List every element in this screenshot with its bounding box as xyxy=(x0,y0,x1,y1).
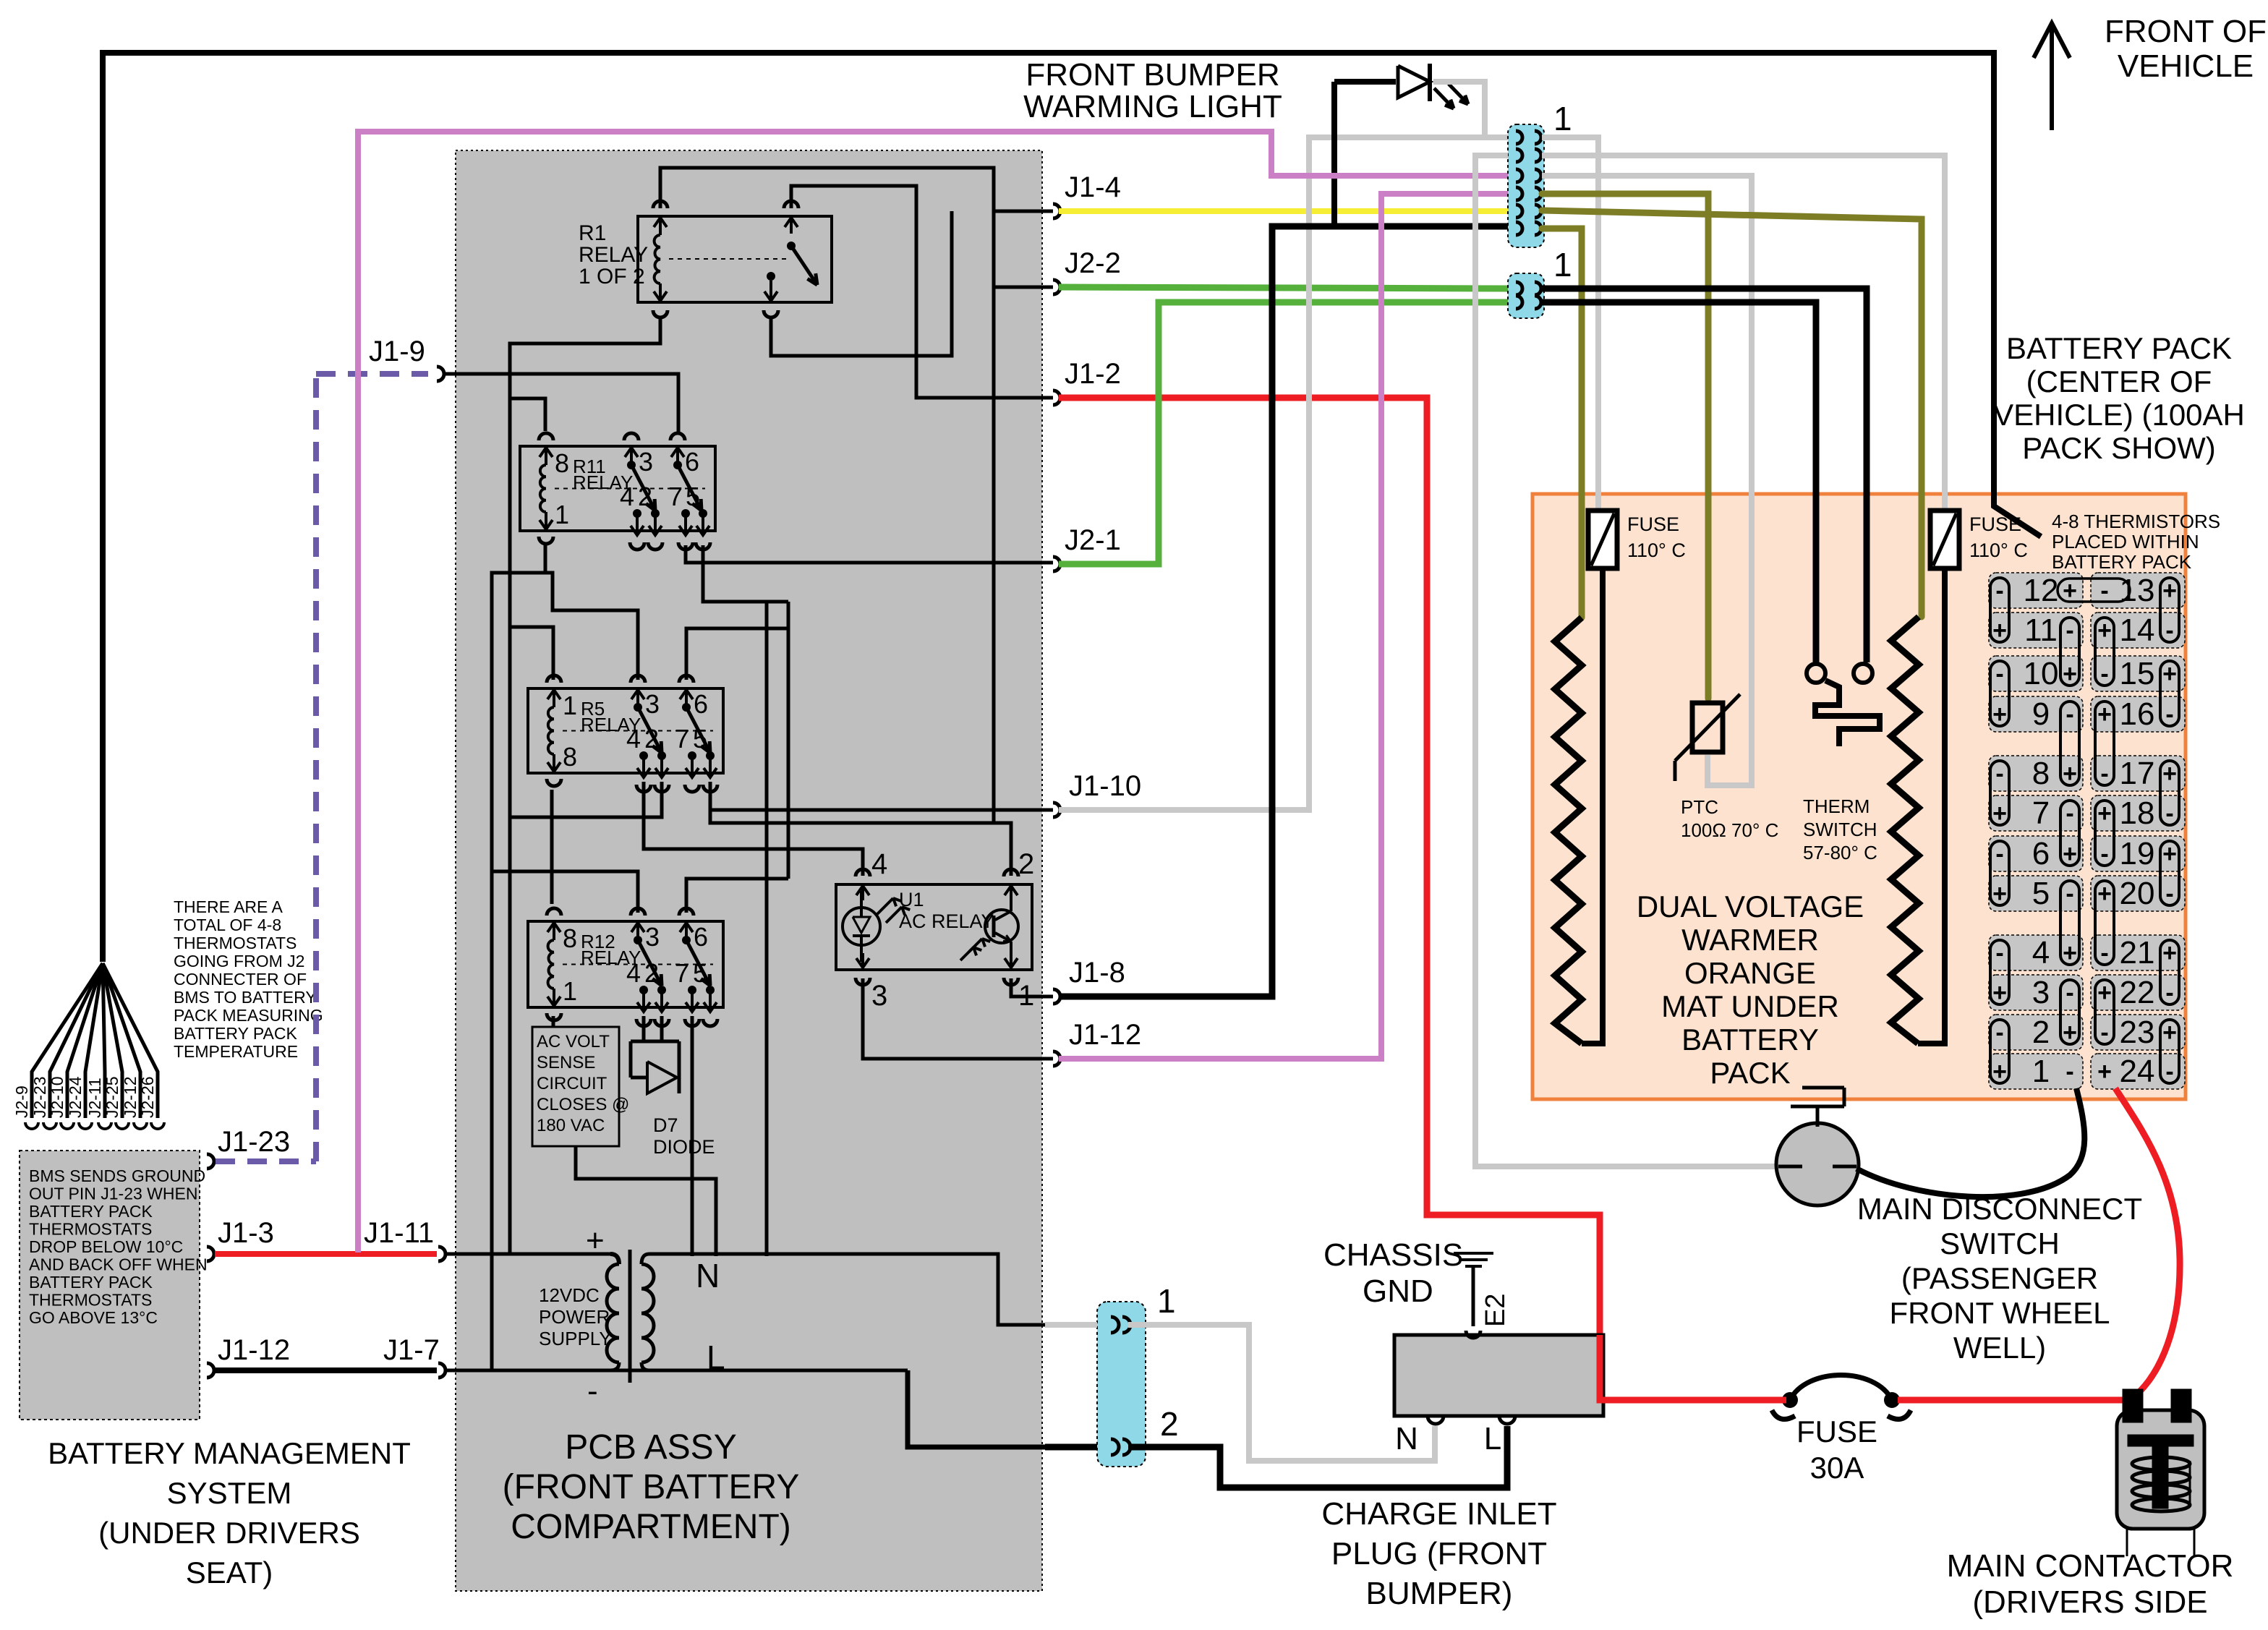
wire R1 coil bottom long left riser xyxy=(510,317,660,1254)
svg-text:BATTERY: BATTERY xyxy=(1681,1023,1819,1057)
svg-text:57-80° C: 57-80° C xyxy=(1803,842,1877,863)
svg-text:THERMOSTATS: THERMOSTATS xyxy=(174,934,297,952)
svg-text:J1-4: J1-4 xyxy=(1065,171,1121,203)
svg-text:16: 16 xyxy=(2120,696,2155,732)
svg-text:J2-12: J2-12 xyxy=(121,1076,140,1118)
battery cell 8 xyxy=(1989,756,2083,791)
svg-text:3: 3 xyxy=(871,980,887,1012)
svg-text:PTC: PTC xyxy=(1681,796,1718,818)
wire left fuse to heater bottom xyxy=(1582,568,1603,1044)
svg-text:ORANGE: ORANGE xyxy=(1684,956,1816,990)
wire disconnect switch to conn1 pin2 (gray) xyxy=(1475,155,1779,1166)
svg-text:24: 24 xyxy=(2120,1054,2155,1089)
svg-text:J2-10: J2-10 xyxy=(48,1076,67,1118)
battery cell 12 xyxy=(1989,573,2083,608)
svg-text:J1-3: J1-3 xyxy=(218,1217,274,1249)
wire AC VOLT box to N line xyxy=(576,1146,716,1256)
svg-text:N: N xyxy=(696,1257,720,1294)
svg-text:6: 6 xyxy=(694,689,708,719)
wire conn1 pin5 to right heater (olive) xyxy=(1542,210,1922,617)
svg-text:+: + xyxy=(2162,577,2177,605)
wire fuse to contactor (red) xyxy=(1898,1397,2127,1404)
battery cell 5 xyxy=(1989,876,2083,911)
relay R11 coil xyxy=(540,465,546,512)
wire conn3 pin1 to charge inlet N (gray) xyxy=(1128,1325,1435,1461)
wire J2-1 to R11 pin7 xyxy=(686,545,1053,563)
svg-text:2: 2 xyxy=(1018,848,1034,880)
svg-text:15: 15 xyxy=(2120,656,2155,691)
svg-text:1: 1 xyxy=(1018,980,1034,1012)
svg-text:J2-24: J2-24 xyxy=(66,1076,85,1118)
svg-text:THERMOSTATS: THERMOSTATS xyxy=(29,1220,152,1239)
svg-text:7: 7 xyxy=(668,482,683,511)
svg-text:6: 6 xyxy=(685,447,699,477)
pin J1-8 stub xyxy=(1053,989,1060,1004)
svg-text:FRONT WHEEL: FRONT WHEEL xyxy=(1890,1296,2110,1330)
svg-text:5: 5 xyxy=(2032,876,2050,911)
LED warming light xyxy=(1398,66,1430,98)
chassis ground symbol xyxy=(1454,1252,1493,1255)
wire R5 coil8 to R12 coil8 xyxy=(550,790,554,904)
svg-text:2: 2 xyxy=(638,482,652,511)
battery straps left outer xyxy=(1990,578,2009,642)
svg-text:180 VAC: 180 VAC xyxy=(537,1116,605,1135)
svg-text:FRONT BUMPER: FRONT BUMPER xyxy=(1026,57,1279,93)
wire battery cell1 to disconnect (black curve) xyxy=(1856,1088,2084,1197)
svg-text:(CENTER OF: (CENTER OF xyxy=(2026,364,2212,398)
relay R5 dashed link xyxy=(563,730,713,732)
svg-text:PCB ASSY: PCB ASSY xyxy=(565,1428,736,1467)
transformer primary xyxy=(610,1254,619,1264)
pin J1-9 stub xyxy=(437,367,444,381)
svg-text:5: 5 xyxy=(686,482,700,511)
svg-text:(PASSENGER: (PASSENGER xyxy=(1901,1261,2098,1295)
wire J2-2 (green) xyxy=(1059,287,1508,289)
svg-text:MAT UNDER: MAT UNDER xyxy=(1661,989,1839,1023)
svg-text:3: 3 xyxy=(2032,975,2050,1010)
wire J1-10 riser xyxy=(710,602,1053,879)
svg-text:BATTERY PACK: BATTERY PACK xyxy=(29,1202,153,1221)
svg-text:L: L xyxy=(1484,1421,1501,1456)
svg-text:1: 1 xyxy=(1553,246,1572,283)
svg-text:SYSTEM: SYSTEM xyxy=(167,1476,292,1510)
wire conn1 pin6 to left heater (olive) xyxy=(1542,229,1582,618)
wire R12 pins to D7 rail xyxy=(631,1016,679,1078)
op-amp U1 AC RELAY box xyxy=(836,884,1032,970)
therm switch xyxy=(1807,664,1825,683)
battery cell 1 xyxy=(1989,1054,2083,1089)
svg-text:J2-9: J2-9 xyxy=(12,1085,31,1118)
svg-text:J1-9: J1-9 xyxy=(369,336,425,367)
svg-text:J2-1: J2-1 xyxy=(1065,524,1121,556)
svg-text:+: + xyxy=(2097,617,2112,644)
svg-text:TEMPERATURE: TEMPERATURE xyxy=(174,1042,298,1061)
battery straps right inner xyxy=(2095,618,2114,686)
svg-text:SEAT): SEAT) xyxy=(186,1556,273,1590)
battery strap 12-13 horizontal xyxy=(2058,579,2130,602)
connector 1 (8-pin) xyxy=(1508,124,1544,247)
svg-text:1: 1 xyxy=(2032,1054,2050,1089)
wire R11 coil1 down-left riser to J1-7 line xyxy=(492,545,545,1370)
wire front bumper warming light (pink) xyxy=(358,132,1508,1253)
pin J1-11 stub xyxy=(438,1247,445,1261)
wire conn1 pin3 to PTC bottom (gray) xyxy=(1542,176,1752,785)
svg-text:R1: R1 xyxy=(579,221,606,245)
svg-text:CHASSIS: CHASSIS xyxy=(1323,1237,1463,1273)
svg-text:-: - xyxy=(2065,617,2073,644)
svg-text:10: 10 xyxy=(2024,656,2059,691)
svg-text:J1-11: J1-11 xyxy=(364,1217,434,1249)
svg-text:SWITCH: SWITCH xyxy=(1803,819,1877,840)
svg-text:TOTAL OF 4-8: TOTAL OF 4-8 xyxy=(174,916,281,934)
battery cell 16 xyxy=(2091,696,2185,732)
svg-text:5: 5 xyxy=(693,958,707,988)
svg-text:J1-12: J1-12 xyxy=(1069,1019,1141,1051)
wire R5 pin2 left riser to J1-11 line xyxy=(510,782,662,817)
svg-text:CHARGE INLET: CHARGE INLET xyxy=(1321,1496,1556,1532)
svg-text:SENSE: SENSE xyxy=(537,1053,595,1072)
svg-text:GO ABOVE 13°C: GO ABOVE 13°C xyxy=(29,1308,158,1327)
transformer secondary xyxy=(641,1254,649,1264)
battery cell 15 xyxy=(2091,656,2185,691)
svg-text:3: 3 xyxy=(645,922,660,952)
U1 phototransistor xyxy=(985,910,1018,943)
svg-text:POWER: POWER xyxy=(539,1306,610,1328)
svg-text:+: + xyxy=(2097,979,2112,1007)
svg-text:VEHICLE: VEHICLE xyxy=(2118,48,2254,84)
heater element right (zigzag) xyxy=(1891,617,1919,1044)
svg-text:N: N xyxy=(1395,1421,1418,1456)
BMS box (battery management system) xyxy=(20,1151,200,1420)
fuse left 110C xyxy=(1588,511,1617,568)
PCB ASSY box xyxy=(456,150,1042,1591)
battery cell 24 xyxy=(2091,1054,2185,1089)
wire conn3 pin1 left (gray) xyxy=(1045,1322,1097,1328)
svg-text:PACK: PACK xyxy=(1710,1056,1790,1090)
battery cell 4 xyxy=(1989,935,2083,970)
svg-text:PACK SHOW): PACK SHOW) xyxy=(2022,431,2216,465)
svg-text:2: 2 xyxy=(2032,1015,2050,1050)
wire J1-2 (red) to fuse 30A xyxy=(1059,398,1785,1400)
svg-text:-: - xyxy=(2065,880,2073,908)
svg-text:J1-7: J1-7 xyxy=(383,1334,440,1366)
svg-text:14: 14 xyxy=(2120,613,2155,648)
svg-text:6: 6 xyxy=(2032,836,2050,871)
wire U1 pin1 to J1-8 pin xyxy=(1011,978,1053,997)
relay R12 pole pins 3 6 xyxy=(636,923,639,940)
wire J1-12 to J1-7 (black) xyxy=(215,1367,437,1373)
svg-text:J1-23: J1-23 xyxy=(218,1126,290,1158)
svg-text:1: 1 xyxy=(563,691,577,720)
svg-text:MAIN CONTACTOR: MAIN CONTACTOR xyxy=(1947,1548,2234,1584)
wire conn1 pin4 to PTC top (olive) xyxy=(1542,194,1708,699)
svg-text:4: 4 xyxy=(871,848,887,880)
battery cell 14 xyxy=(2091,613,2185,648)
svg-text:J2-26: J2-26 xyxy=(138,1076,157,1118)
svg-text:8: 8 xyxy=(563,923,577,953)
svg-text:19: 19 xyxy=(2120,836,2155,871)
wire riser to R5 coil 1 xyxy=(510,627,553,680)
svg-text:4: 4 xyxy=(620,482,634,511)
svg-text:(DRIVERS SIDE: (DRIVERS SIDE xyxy=(1972,1584,2207,1620)
svg-text:8: 8 xyxy=(555,448,569,478)
battery straps right outer xyxy=(2160,578,2179,642)
svg-text:-: - xyxy=(2065,800,2073,827)
wire riser to R11 coil 8 xyxy=(510,398,545,431)
wire conn1 pin2 to right fuse (gray) xyxy=(1542,155,1945,511)
relay R5 coil xyxy=(548,707,554,754)
wire R12 pin3 to left riser xyxy=(492,871,638,913)
wire R12 pin6 to riser xyxy=(686,879,788,913)
svg-text:2: 2 xyxy=(1160,1405,1179,1443)
connector 2 (2-pin) xyxy=(1508,273,1544,318)
svg-text:3: 3 xyxy=(645,689,660,719)
wire U1 pin3 to J1-12 pin xyxy=(863,978,1053,1059)
svg-text:100Ω 70° C: 100Ω 70° C xyxy=(1681,819,1778,841)
svg-text:J2-25: J2-25 xyxy=(103,1076,121,1118)
wire R1 coil top to J1-4 xyxy=(660,168,1053,287)
wire R5 pin6 up to riser xyxy=(686,628,788,680)
svg-text:VEHICLE) (100AH: VEHICLE) (100AH xyxy=(1993,398,2245,432)
wire R1 pole to J1-2 xyxy=(791,186,1053,398)
battery cell 13 xyxy=(2091,573,2185,608)
battery cell 10 xyxy=(1989,656,2083,691)
svg-text:+: + xyxy=(2162,939,2177,967)
charge inlet L pin xyxy=(1499,1416,1515,1424)
wire R11 coil1 to R5 pin3 xyxy=(545,573,638,680)
orange mat box xyxy=(1532,494,2186,1099)
relay R5 pole pins 3 6 xyxy=(636,690,639,707)
svg-text:FRONT OF: FRONT OF xyxy=(2105,14,2267,49)
wire J1-23 dashed (purple) xyxy=(216,374,428,1161)
wire J1-4 (yellow) xyxy=(1059,208,1508,214)
svg-text:2: 2 xyxy=(644,724,659,754)
wire N to PCB edge xyxy=(649,1254,1045,1325)
heater element left (zigzag) xyxy=(1555,618,1582,1044)
U1 LED xyxy=(843,908,880,945)
svg-text:23: 23 xyxy=(2120,1015,2155,1050)
svg-text:CONNECTER OF: CONNECTER OF xyxy=(174,970,307,989)
svg-text:BMS TO BATTERY: BMS TO BATTERY xyxy=(174,988,317,1007)
wire conn2 pin1 to therm switch right (black) xyxy=(1542,289,1867,662)
svg-text:1: 1 xyxy=(1157,1282,1176,1320)
relay R11 pole pins 3 6 xyxy=(630,448,633,465)
fuse 30A xyxy=(1782,1392,1798,1408)
svg-text:-: - xyxy=(1995,660,2003,688)
svg-text:-: - xyxy=(587,1373,598,1409)
pin J2-2 stub xyxy=(1053,280,1060,294)
svg-text:PLACED WITHIN: PLACED WITHIN xyxy=(2052,531,2199,552)
wire R12 coil1 to AC VOLT box xyxy=(552,1016,555,1027)
svg-text:BATTERY PACK: BATTERY PACK xyxy=(174,1024,298,1043)
wire R5 pin5 to U1 pin2 xyxy=(710,782,1011,876)
svg-text:D7: D7 xyxy=(653,1114,678,1136)
svg-text:CLOSES @: CLOSES @ xyxy=(537,1095,629,1114)
wire J2-2 to U1 pin2 xyxy=(994,287,1053,823)
svg-text:7: 7 xyxy=(675,724,689,754)
wire conn3 pin2 left (black) xyxy=(1045,1444,1097,1451)
wire L to PCB edge xyxy=(908,1370,1045,1447)
pin J1-2 stub xyxy=(1053,391,1060,405)
pin J1-23 stub xyxy=(207,1154,214,1169)
svg-text:22: 22 xyxy=(2120,975,2155,1010)
wire thermistor bundle frame (BMS J2 to battery pack) xyxy=(103,53,2041,962)
relay R1 pole pin xyxy=(790,218,793,234)
svg-text:1: 1 xyxy=(563,976,577,1006)
svg-text:-: - xyxy=(2065,1058,2073,1085)
pin J2-1 stub xyxy=(1053,557,1060,571)
wire conn2 pin2 to therm switch left (black) xyxy=(1542,302,1816,662)
battery cell 11 xyxy=(1989,613,2083,648)
svg-text:FUSE: FUSE xyxy=(1627,513,1679,535)
main disconnect switch xyxy=(1776,1123,1859,1206)
svg-text:+: + xyxy=(2097,800,2112,827)
svg-text:WARMER: WARMER xyxy=(1681,923,1819,957)
svg-text:BATTERY PACK: BATTERY PACK xyxy=(29,1273,153,1292)
svg-text:-: - xyxy=(1995,760,2003,788)
svg-text:J2-2: J2-2 xyxy=(1065,247,1121,279)
svg-text:CIRCUIT: CIRCUIT xyxy=(537,1074,607,1093)
diode D7 xyxy=(647,1062,677,1093)
relay R11 dashed link xyxy=(555,488,705,490)
pin J1-4 stub xyxy=(1053,204,1060,218)
svg-text:6: 6 xyxy=(694,922,708,952)
svg-text:30A: 30A xyxy=(1810,1451,1864,1485)
pin J1-10 stub xyxy=(1053,803,1060,817)
thermistor fan-out wires xyxy=(32,963,103,1118)
svg-text:WELL): WELL) xyxy=(1953,1331,2046,1365)
svg-text:L: L xyxy=(707,1339,725,1376)
wire J1-11 to transformer + xyxy=(444,1253,610,1256)
svg-text:1: 1 xyxy=(555,500,569,529)
battery cell 17 xyxy=(2091,756,2185,791)
relay R12 coil xyxy=(548,940,554,989)
svg-text:2: 2 xyxy=(644,958,659,988)
thermistor stub arcs xyxy=(25,1122,38,1129)
svg-text:J1-8: J1-8 xyxy=(1069,957,1125,989)
wire conn1 pin1 to left fuse (gray) xyxy=(1542,137,1598,511)
svg-text:-: - xyxy=(2065,979,2073,1007)
AC VOLT SENSE box xyxy=(532,1027,619,1146)
wire J1-7 / transformer bottom line xyxy=(444,1369,908,1373)
battery cell 6 xyxy=(1989,836,2083,871)
transformer core xyxy=(628,1250,632,1383)
wire J1-8 (black) to connector xyxy=(1059,226,1508,997)
wire J2-1 (green) xyxy=(1059,302,1508,564)
svg-text:-: - xyxy=(1995,1019,2003,1046)
relay R11 RELAY box xyxy=(520,446,715,531)
svg-text:THERM: THERM xyxy=(1803,795,1870,817)
wire R5 pin4 to U1 pin4 xyxy=(644,782,863,876)
relay R1 dashed link xyxy=(669,258,788,260)
svg-text:+: + xyxy=(2162,760,2177,788)
pin J1-3 stub xyxy=(207,1247,214,1261)
svg-text:+: + xyxy=(586,1223,605,1258)
svg-text:+: + xyxy=(2097,701,2112,728)
battery cell 21 xyxy=(2091,935,2185,970)
svg-text:5: 5 xyxy=(693,724,707,754)
svg-text:110° C: 110° C xyxy=(1969,539,2028,561)
svg-text:J1-10: J1-10 xyxy=(1069,770,1141,802)
svg-text:20: 20 xyxy=(2120,876,2155,911)
battery cell 2 xyxy=(1989,1015,2083,1050)
battery cell 19 xyxy=(2091,836,2185,871)
charge inlet N pin xyxy=(1428,1416,1444,1424)
svg-text:J2-23: J2-23 xyxy=(30,1076,49,1118)
svg-text:J2-11: J2-11 xyxy=(85,1078,104,1118)
battery cell 7 xyxy=(1989,795,2083,831)
PTC thermistor xyxy=(1692,703,1723,752)
svg-text:9: 9 xyxy=(2032,696,2050,732)
svg-text:SWITCH: SWITCH xyxy=(1940,1226,2060,1260)
wire R11 pin5 to risers xyxy=(703,545,788,1256)
fuse right 110C xyxy=(1930,511,1959,568)
wire thermistor bundle tail over orange mat xyxy=(1994,405,2041,537)
wire R12 pin7 to N line xyxy=(691,1016,694,1256)
battery cell 23 xyxy=(2091,1015,2185,1050)
svg-text:1 OF 2: 1 OF 2 xyxy=(579,265,645,289)
wire conn3 pin2 to charge inlet L (black) xyxy=(1128,1426,1507,1488)
svg-text:4-8 THERMISTORS: 4-8 THERMISTORS xyxy=(2052,511,2220,532)
svg-text:GND: GND xyxy=(1363,1273,1433,1309)
svg-text:AND BACK OFF WHEN: AND BACK OFF WHEN xyxy=(29,1255,208,1274)
battery cell 22 xyxy=(2091,975,2185,1010)
wire J1-12 (pink) xyxy=(1059,194,1508,1059)
svg-text:PACK MEASURING: PACK MEASURING xyxy=(174,1006,323,1025)
relay R1 coil xyxy=(655,235,660,283)
svg-text:DROP BELOW 10°C: DROP BELOW 10°C xyxy=(29,1237,183,1256)
battery straps left inner xyxy=(2060,618,2079,686)
relay R1 bottom contact pin xyxy=(767,272,775,281)
svg-text:THERE ARE A: THERE ARE A xyxy=(174,897,283,916)
wire right fuse to heater bottom xyxy=(1918,568,1945,1044)
relay R12 dashed link xyxy=(563,964,713,965)
wire J1-10 (gray) xyxy=(1059,137,1508,810)
svg-text:AC VOLT: AC VOLT xyxy=(537,1032,610,1051)
battery cell 18 xyxy=(2091,795,2185,831)
svg-text:(UNDER DRIVERS: (UNDER DRIVERS xyxy=(98,1516,360,1550)
svg-text:-: - xyxy=(1995,939,2003,967)
svg-text:+: + xyxy=(2162,660,2177,688)
svg-text:THERMOSTATS: THERMOSTATS xyxy=(29,1291,152,1310)
arrow front of vehicle xyxy=(2050,25,2054,130)
connector 3 (PCB to charge inlet) xyxy=(1097,1302,1146,1467)
svg-text:13: 13 xyxy=(2120,573,2155,608)
svg-text:AC RELAY: AC RELAY xyxy=(899,910,994,932)
relay R1 box xyxy=(638,216,832,302)
svg-text:BATTERY MANAGEMENT: BATTERY MANAGEMENT xyxy=(48,1436,411,1470)
svg-text:1: 1 xyxy=(1553,100,1572,137)
charge inlet box xyxy=(1394,1335,1603,1416)
pin J1-7 stub xyxy=(438,1363,445,1378)
wire J1-3 to J1-11 (red) xyxy=(215,1251,437,1257)
svg-text:11: 11 xyxy=(2024,613,2058,648)
svg-text:-: - xyxy=(1995,577,2003,605)
svg-text:4: 4 xyxy=(626,724,641,754)
svg-text:E2: E2 xyxy=(1480,1294,1511,1327)
svg-text:DUAL VOLTAGE: DUAL VOLTAGE xyxy=(1637,889,1864,923)
svg-text:12: 12 xyxy=(2024,573,2059,608)
svg-text:+: + xyxy=(2097,1058,2112,1085)
svg-text:GOING FROM J2: GOING FROM J2 xyxy=(174,952,304,970)
svg-text:17: 17 xyxy=(2120,756,2155,791)
svg-text:BATTERY PACK: BATTERY PACK xyxy=(2052,551,2192,573)
wire LED branch black xyxy=(1331,82,1337,226)
svg-text:BMS SENDS GROUND: BMS SENDS GROUND xyxy=(29,1166,205,1185)
svg-text:3: 3 xyxy=(639,447,653,477)
svg-text:COMPARTMENT): COMPARTMENT) xyxy=(511,1508,791,1546)
svg-text:4: 4 xyxy=(626,958,641,988)
